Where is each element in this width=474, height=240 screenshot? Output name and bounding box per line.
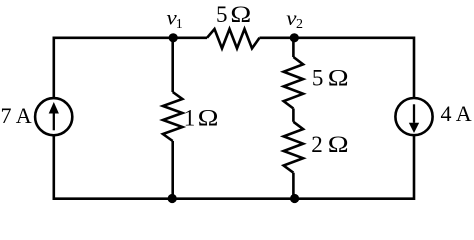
wire v2 branch lower xyxy=(292,173,295,199)
node v1 junction dot xyxy=(169,33,178,42)
svg-text:1: 1 xyxy=(184,106,196,131)
svg-text:Ω: Ω xyxy=(230,1,251,27)
current source I2 arrow down xyxy=(409,104,419,133)
svg-text:4 A: 4 A xyxy=(441,101,472,126)
svg-text:Ω: Ω xyxy=(198,105,219,131)
resistor 2-ohm zigzag xyxy=(284,122,304,173)
svg-text:2: 2 xyxy=(311,132,323,157)
node v2 junction dot xyxy=(290,33,299,42)
svg-text:7 A: 7 A xyxy=(1,103,32,128)
svg-text:5: 5 xyxy=(312,65,324,90)
wire v1 branch upper xyxy=(171,38,174,92)
wire v2 branch upper xyxy=(292,38,295,57)
current source I2 circle xyxy=(395,98,432,135)
wire bottom rail xyxy=(54,135,414,199)
svg-text:Ω: Ω xyxy=(328,65,349,91)
wire top-right (resistor to right corner, down to source) xyxy=(260,38,415,98)
resistor 1-ohm zigzag xyxy=(163,92,183,141)
wire top-left (left rail up and top rail to resistor) xyxy=(54,38,207,99)
current source I1 arrow up xyxy=(49,102,59,130)
bottom-right junction dot xyxy=(290,194,299,203)
bottom-left junction dot xyxy=(168,194,177,203)
svg-text:2: 2 xyxy=(296,17,303,32)
resistor R top 5-ohm zigzag xyxy=(207,29,260,48)
wire v1 branch lower xyxy=(171,141,174,199)
svg-text:Ω: Ω xyxy=(328,131,349,157)
svg-text:5: 5 xyxy=(216,2,228,27)
svg-text:1: 1 xyxy=(176,17,183,32)
resistor 5-ohm vertical zigzag xyxy=(284,57,304,109)
current source I1 circle xyxy=(35,98,72,135)
wire v2 branch middle xyxy=(292,109,295,122)
